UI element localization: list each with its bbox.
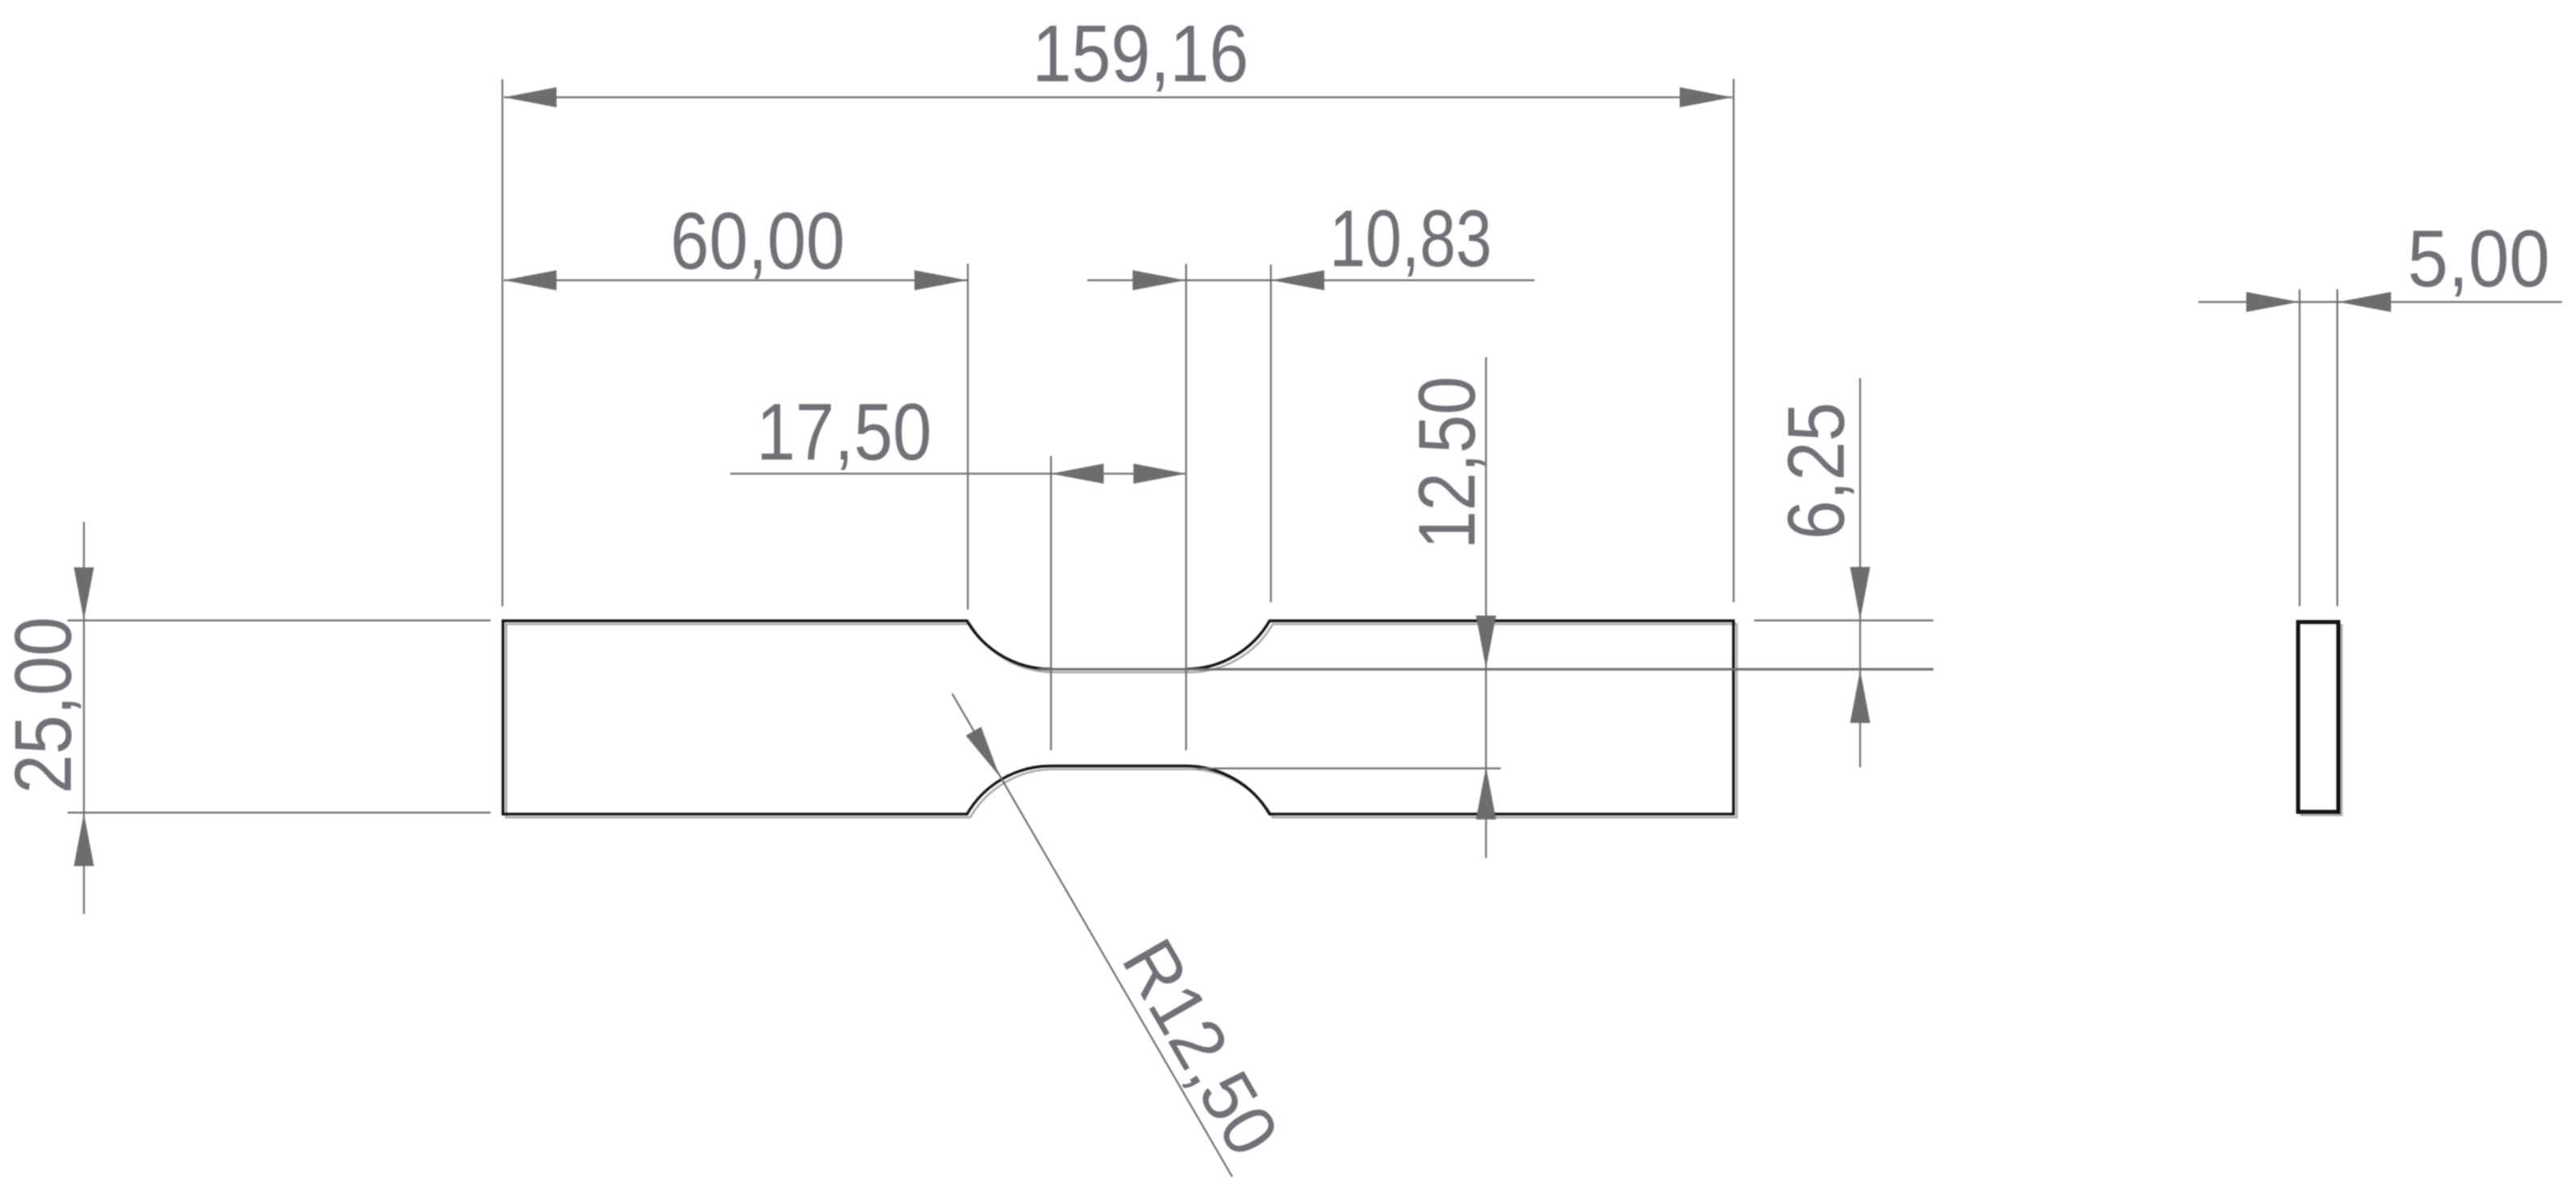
arrowhead outside-right 10,83 xyxy=(1272,270,1325,290)
arrowhead up 6,25 xyxy=(1850,671,1870,724)
neck top flat edge with extension line of dims 12,50 and 6,25 xyxy=(1037,668,1933,671)
arrowhead left 17,50 xyxy=(1051,464,1104,484)
extension line at specimen right edge xyxy=(1733,79,1735,602)
arrowhead left 159,16 xyxy=(504,88,557,108)
extension line bottom edge toward left xyxy=(68,811,491,813)
dimension line 5,00 xyxy=(2199,301,2562,302)
extension line at specimen left edge xyxy=(502,80,503,606)
arrowhead outside-right 5,00 xyxy=(2339,292,2392,312)
radius leader arrowhead xyxy=(966,727,1000,777)
arrowhead left 60,00 xyxy=(504,270,557,290)
dimension line 25,00 vertical xyxy=(83,522,84,914)
extension line neck bottom toward right xyxy=(1197,767,1501,769)
arrowhead right 17,50 xyxy=(1133,464,1186,484)
extension line top edge toward left xyxy=(68,619,491,621)
dimension line 10,83 xyxy=(1087,279,1535,281)
arrowhead up 12,50 xyxy=(1476,767,1496,820)
extension line side view left edge xyxy=(2299,290,2300,606)
extension line at neck flat right end xyxy=(1185,264,1187,750)
dimension line 17,50 xyxy=(730,473,1185,474)
svg-text:6,25: 6,25 xyxy=(1772,402,1862,540)
svg-text:159,16: 159,16 xyxy=(1033,9,1249,99)
svg-text:25,00: 25,00 xyxy=(0,617,88,794)
arrowhead right 60,00 xyxy=(914,270,968,290)
arrowhead right 159,16 xyxy=(1680,88,1733,108)
dimension line 60,00 xyxy=(504,279,968,281)
specimen outline (dog-bone front view) xyxy=(503,621,1733,814)
arrowhead down 25,00 xyxy=(74,568,94,621)
extension line side view right edge xyxy=(2336,290,2338,606)
arrowhead up 25,00 xyxy=(74,814,94,867)
arrowhead down 12,50 xyxy=(1476,616,1496,669)
dimension line 12,50 vertical xyxy=(1485,357,1487,858)
svg-text:12,50: 12,50 xyxy=(1403,376,1493,549)
svg-text:5,00: 5,00 xyxy=(2408,214,2550,304)
arrowhead outside-left 10,83 xyxy=(1132,270,1185,290)
extension line top edge toward right xyxy=(1754,619,1933,621)
dimension line 6,25 vertical xyxy=(1859,378,1861,767)
arrowhead outside-left 5,00 xyxy=(2246,292,2299,312)
extension line at right fillet end xyxy=(1270,265,1272,602)
extension line at neck flat left end xyxy=(1050,456,1052,750)
svg-text:60,00: 60,00 xyxy=(671,196,845,286)
specimen outline shadow xyxy=(506,624,1736,817)
svg-text:17,50: 17,50 xyxy=(757,388,932,478)
extension line at left fillet start xyxy=(967,264,968,610)
dimension line 159,16 xyxy=(504,97,1733,98)
svg-text:10,83: 10,83 xyxy=(1329,194,1492,284)
arrowhead down 6,25 xyxy=(1850,567,1870,620)
radius leader line R12,50 xyxy=(952,694,1232,1177)
side view rectangle (5 mm thickness view) xyxy=(2299,622,2339,812)
side view shadow xyxy=(2302,626,2342,815)
